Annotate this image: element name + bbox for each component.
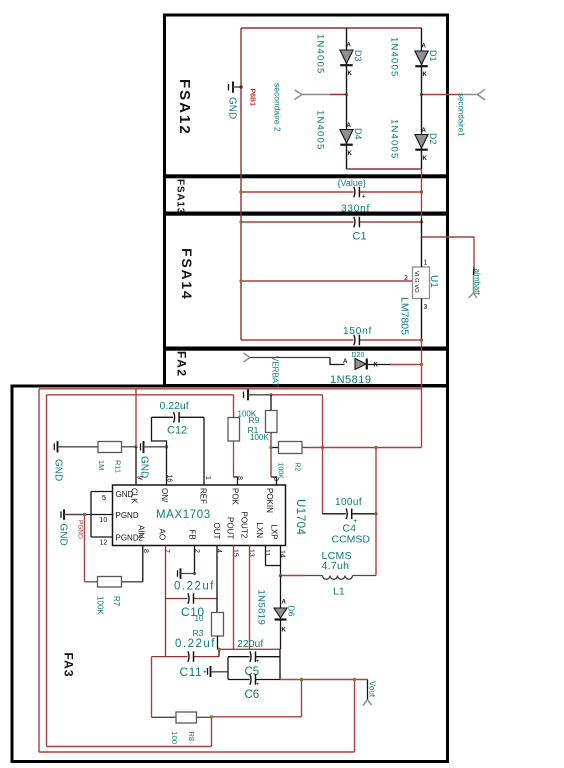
wire 220uf net [218, 648, 281, 650]
svg-text:1N4005: 1N4005 [389, 37, 400, 77]
svg-text:A: A [347, 123, 352, 129]
svg-text:D6: D6 [287, 606, 297, 617]
svg-text:FSA13: FSA13 [175, 179, 186, 214]
diode D6 1N5819 [280, 576, 282, 608]
svg-text:A: A [347, 43, 352, 49]
svg-text:almbatt: almbatt [473, 269, 482, 296]
wire AO rail [165, 546, 167, 657]
svg-text:{Value}: {Value} [338, 178, 366, 188]
frame FSA13 box [165, 177, 448, 213]
wire inner red loop [47, 394, 234, 396]
svg-text:1N5819: 1N5819 [256, 590, 267, 626]
resistor R2 100K [271, 447, 279, 449]
svg-text:D2: D2 [428, 133, 438, 145]
wire top net of bridge [241, 27, 422, 29]
svg-text:11: 11 [263, 549, 270, 556]
svg-text:D1: D1 [428, 50, 438, 62]
capacitor {Value} [241, 191, 354, 193]
svg-text:100K: 100K [96, 596, 105, 615]
svg-text:ON/: ON/ [160, 488, 169, 503]
svg-text:K: K [348, 71, 353, 77]
ground GND in FSA12 [228, 84, 230, 91]
svg-text:12: 12 [100, 540, 108, 547]
svg-text:R2: R2 [294, 463, 301, 472]
svg-text:LXP: LXP [270, 525, 279, 540]
pin PGND2 12 [90, 492, 92, 538]
svg-text:POKIN: POKIN [265, 488, 274, 513]
wire diode column D3/D4 [346, 28, 348, 169]
wire almbatt branch [422, 237, 475, 267]
wire U1 input pin 2 [241, 280, 413, 282]
wire CLK pin [135, 447, 137, 485]
wire LXN pin bracket [265, 546, 267, 566]
svg-text:8: 8 [236, 476, 243, 480]
svg-text:1: 1 [204, 476, 211, 480]
svg-text:POUT: POUT [226, 517, 235, 539]
svg-text:secondaire1: secondaire1 [457, 93, 466, 137]
wire Vout net [280, 679, 368, 681]
svg-text:+: + [362, 194, 366, 201]
resistor R11 1M [98, 442, 122, 453]
connector Vout [363, 700, 368, 706]
svg-text:D4: D4 [353, 128, 363, 140]
wire output net x=376 vertical [375, 448, 377, 576]
svg-text:0.22uf: 0.22uf [160, 400, 189, 412]
IC U1704 MAX1703 body [113, 485, 286, 546]
wire POUT2 pin net [249, 546, 251, 650]
frame FSA14 box [165, 214, 448, 348]
svg-text:1M: 1M [97, 460, 106, 470]
svg-text:K: K [348, 151, 353, 157]
svg-text:FB: FB [188, 530, 197, 540]
svg-text:VI G VO: VI G VO [413, 271, 419, 293]
wire POKIN net x=322 vertical [322, 395, 324, 514]
svg-text:FA3: FA3 [62, 653, 76, 678]
svg-text:C1: C1 [353, 231, 367, 243]
svg-text:AO: AO [158, 529, 167, 541]
svg-text:+: + [256, 659, 260, 665]
ground GND at PGND [60, 511, 62, 518]
svg-text:R8: R8 [187, 732, 196, 742]
svg-text:14: 14 [279, 550, 286, 558]
svg-text:K: K [423, 156, 428, 162]
svg-text:L1: L1 [333, 586, 345, 598]
svg-text:CCMSD: CCMSD [332, 534, 371, 546]
svg-text:C11: C11 [180, 665, 203, 679]
wire Vout to R8 branch [301, 680, 303, 717]
connector secondaire1 [478, 90, 486, 95]
svg-text:POK: POK [231, 488, 240, 506]
svg-text:3: 3 [424, 304, 428, 311]
svg-text:A: A [422, 44, 427, 50]
wire FB pin [194, 546, 196, 574]
svg-text:13: 13 [248, 549, 255, 557]
wire PGND net to R7 [84, 515, 86, 582]
svg-text:CLK: CLK [130, 488, 139, 504]
wire diode column D1/D2 [421, 28, 423, 169]
svg-text:R7: R7 [112, 596, 121, 607]
svg-text:C12: C12 [167, 425, 187, 437]
svg-text:K: K [374, 363, 379, 369]
svg-text:FSA14: FSA14 [179, 248, 195, 301]
svg-text:P6B1: P6B1 [249, 89, 256, 107]
svg-text:1N5819: 1N5819 [330, 374, 372, 386]
svg-text:7: 7 [163, 549, 170, 553]
svg-text:K: K [282, 628, 287, 634]
resistor R7 100K [98, 577, 122, 588]
pin GND 5 [91, 491, 113, 493]
svg-text:100K: 100K [250, 433, 269, 442]
svg-text:K: K [423, 72, 428, 78]
svg-text:16: 16 [166, 475, 173, 483]
svg-text:5: 5 [102, 495, 106, 502]
wire C11 to R8 [151, 657, 153, 718]
svg-text:2: 2 [404, 275, 408, 282]
wire ON/ pin [166, 447, 168, 485]
svg-text:1N4005: 1N4005 [315, 110, 326, 150]
svg-text:R3: R3 [193, 628, 204, 638]
wire secondaire 2 tap [302, 94, 330, 96]
svg-text:A: A [422, 128, 427, 134]
svg-text:R11: R11 [114, 460, 123, 473]
svg-text:MAX1703: MAX1703 [156, 509, 211, 521]
svg-text:R9: R9 [249, 415, 260, 425]
wire REF pin from C12 [203, 417, 205, 485]
svg-text:10: 10 [100, 517, 108, 524]
svg-text:FSA12: FSA12 [176, 79, 193, 136]
svg-text:A: A [282, 600, 287, 606]
svg-text:3: 3 [272, 477, 279, 481]
svg-text:PGND: PGND [116, 511, 139, 520]
wire bridge bottom [347, 168, 422, 170]
wire VERBAT to diode [250, 357, 330, 359]
svg-text:9: 9 [136, 476, 143, 480]
frame FA2 box [165, 349, 448, 385]
svg-text:4.7uh: 4.7uh [322, 560, 350, 572]
wire diode cathode to bus [368, 364, 390, 366]
connector almbatt [469, 293, 474, 298]
svg-text:U1704: U1704 [294, 499, 306, 535]
svg-text:REF: REF [199, 488, 208, 504]
svg-text:OUT: OUT [212, 523, 221, 540]
svg-text:15: 15 [232, 549, 239, 557]
wire secondaire1 tap [422, 94, 461, 96]
pin PGND 10 [85, 514, 113, 516]
svg-text:1N4005: 1N4005 [315, 34, 326, 74]
wire AIN pin [142, 546, 144, 582]
wire LXP pin [280, 546, 282, 576]
wire outer red loop [39, 388, 422, 390]
svg-text:100uf: 100uf [335, 497, 362, 508]
svg-text:1: 1 [424, 260, 428, 267]
resistor R8 100 [152, 716, 177, 718]
regulator U1 LM7805 [413, 267, 430, 299]
ground GND, on CLK/ON net [140, 443, 142, 450]
svg-text:VERBAT: VERBAT [271, 356, 280, 388]
svg-text:0.22uf: 0.22uf [174, 581, 215, 593]
svg-text:4: 4 [215, 549, 222, 553]
svg-text:D20: D20 [352, 352, 365, 359]
capacitor C5 220uf [228, 656, 250, 658]
capacitor C6 [228, 679, 250, 681]
wire vertical bus P6B1 x=241 [240, 28, 242, 340]
svg-text:A: A [343, 359, 348, 365]
svg-text:100: 100 [170, 732, 179, 745]
connector VERBAT [244, 353, 251, 358]
svg-text:D3: D3 [353, 50, 363, 62]
svg-text:AIN: AIN [137, 525, 146, 539]
svg-text:GND: GND [53, 459, 64, 481]
svg-text:GND: GND [227, 97, 238, 119]
connector secondaire 2 [295, 90, 303, 95]
svg-text:LXN: LXN [255, 523, 264, 539]
wire main bus from bridge to FA3 [421, 169, 423, 218]
ground GND on R9 net [243, 392, 245, 399]
ground GND left of R11 [53, 443, 55, 450]
svg-text:secondaire 2: secondaire 2 [273, 83, 283, 132]
wire R9 net to x=322 [271, 394, 323, 396]
svg-text:150nf: 150nf [343, 326, 372, 337]
wire CLK net vertical [135, 389, 137, 447]
wire POUT pin net [233, 546, 235, 650]
svg-text:0.22uf: 0.22uf [175, 638, 216, 650]
wire OUT pin to R3 [216, 546, 218, 613]
svg-text:POUT2: POUT2 [240, 512, 249, 539]
svg-text:LM7805: LM7805 [399, 297, 411, 335]
svg-text:10: 10 [195, 614, 204, 623]
svg-text:C5: C5 [245, 666, 260, 678]
capacitor 150nf [241, 339, 354, 341]
svg-text:+: + [203, 670, 207, 676]
svg-text:330nf: 330nf [341, 204, 370, 215]
svg-text:C6: C6 [245, 689, 260, 701]
svg-text:1N4005: 1N4005 [389, 119, 400, 159]
svg-text:Vout: Vout [368, 681, 377, 698]
ground GND at FB [177, 570, 179, 577]
svg-text:PGND: PGND [77, 520, 84, 539]
frame FA3 box [12, 386, 448, 762]
svg-text:FA2: FA2 [175, 351, 189, 378]
frame FSA12 box [165, 15, 448, 176]
svg-text:+: + [256, 682, 260, 688]
svg-text:U1: U1 [428, 275, 439, 288]
svg-text:GND: GND [58, 524, 69, 546]
ground GND at C5 rail [207, 668, 209, 675]
